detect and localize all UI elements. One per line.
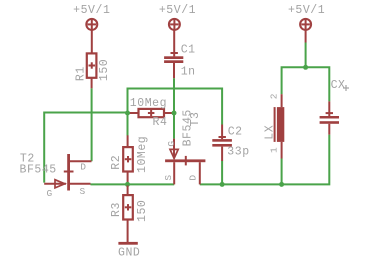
wire R4-right junction down to T3 gate: [173, 113, 175, 139]
capacitor CX: [320, 79, 349, 135]
svg-text:10Meg: 10Meg: [136, 136, 149, 173]
svg-text:+5V/1: +5V/1: [288, 4, 325, 17]
svg-text:+5V/1: +5V/1: [73, 4, 110, 17]
svg-text:D: D: [188, 175, 199, 181]
wire T2 source to T3 source along y=184.4: [91, 183, 175, 185]
svg-text:+5V/1: +5V/1: [159, 4, 196, 17]
ground GND: [118, 242, 140, 260]
svg-text:CX: CX: [331, 79, 346, 92]
wire junction R4-left down to R2 top: [127, 113, 129, 136]
supply +5V/1 (left): [73, 4, 110, 53]
svg-text:LX: LX: [264, 125, 277, 140]
svg-text:D: D: [80, 162, 86, 173]
junction node supply3 / top-right rail: [303, 65, 308, 70]
svg-text:150: 150: [136, 200, 149, 222]
svg-text:S: S: [80, 186, 86, 197]
resistor R1 150: [75, 53, 111, 88]
svg-text:S: S: [163, 175, 174, 181]
svg-text:10Meg: 10Meg: [130, 97, 167, 110]
transistor T2 BF545 (JFET): [20, 153, 92, 199]
inductor LX: [264, 93, 285, 158]
svg-text:G: G: [47, 188, 53, 199]
resistor R2 10Meg: [110, 135, 149, 183]
svg-text:R4: R4: [153, 116, 168, 129]
wire C1 bottom down to R4 right junction: [173, 78, 175, 113]
svg-text:G: G: [166, 141, 177, 147]
capacitor C2 33p: [212, 125, 249, 162]
svg-text:BF545: BF545: [20, 164, 57, 177]
svg-text:1: 1: [268, 147, 279, 153]
wire top-right rail LX top to CX top: [282, 67, 330, 101]
junction node R4 right / C1 / T3 gate: [172, 111, 177, 116]
svg-text:150: 150: [98, 59, 111, 81]
svg-text:33p: 33p: [227, 146, 249, 159]
svg-text:R3: R3: [110, 202, 123, 217]
supply +5V/1 (middle): [159, 4, 196, 56]
svg-text:C2: C2: [228, 126, 243, 139]
junction node C2 bottom / bottom net: [220, 182, 225, 187]
supply +5V/1 (right): [288, 4, 325, 42]
svg-text:R1: R1: [75, 66, 88, 81]
wire net N$1 gate of T2 up and over to R4 left: [44, 113, 127, 183]
wire C2 bottom to bottom net: [221, 161, 223, 185]
svg-text:1n: 1n: [181, 65, 196, 78]
wire R1 bottom down to T2 drain corner: [91, 88, 93, 161]
junction node R2 / R3 / source net: [125, 182, 130, 187]
svg-text:C1: C1: [181, 43, 196, 56]
wire LX bottom to bottom net: [281, 159, 283, 185]
svg-text:2: 2: [268, 93, 279, 99]
resistor R3 150: [110, 186, 149, 243]
svg-text:T3: T3: [189, 112, 202, 127]
resistor R4 10Meg: [128, 97, 175, 129]
wire over-route R4-left junction up and right to C2 top: [128, 89, 223, 125]
wire supply3 down to top-right rail: [305, 43, 307, 68]
wire bottom net T3 drain to CX bottom corner: [200, 135, 329, 185]
junction node R4 left / R2 / gate net: [125, 111, 130, 116]
transistor T3 BF545 (JFET, rotated): [163, 109, 205, 184]
svg-text:R2: R2: [110, 155, 123, 170]
capacitor C1 1n: [164, 43, 196, 78]
junction node LX bottom / bottom net: [279, 182, 284, 187]
svg-text:GND: GND: [118, 246, 140, 259]
